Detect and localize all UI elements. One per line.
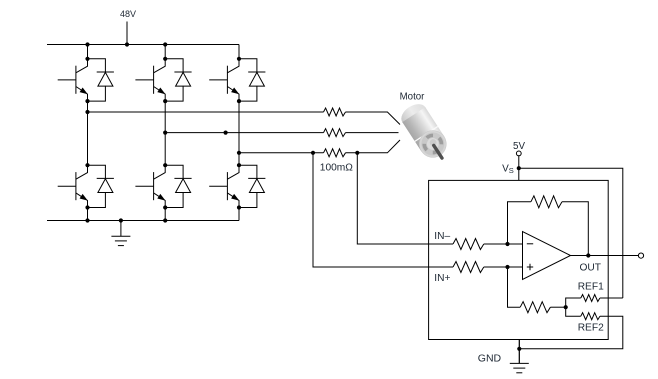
wire IN- to opamp <box>484 243 523 245</box>
resistor phase B <box>324 129 346 137</box>
wire leg3 mid <box>238 101 240 165</box>
wire 48V bus (top rail) <box>47 44 239 46</box>
node Q4 collector <box>85 163 89 167</box>
resistor R-REF1 <box>581 295 600 302</box>
junction feedback-output <box>586 253 590 257</box>
junction IN+ gain <box>505 265 509 269</box>
node shunt right tap <box>355 151 359 155</box>
wire shunt right tap to IN- <box>357 153 453 244</box>
wire feedback right-down <box>562 202 588 256</box>
diode D6 <box>239 165 265 207</box>
node Q1 collector <box>85 57 89 61</box>
wire gain resistor path <box>508 267 521 307</box>
resistor phase A <box>324 108 346 116</box>
wire IN+ to opamp <box>484 266 523 268</box>
resistor R-REF2 <box>581 313 600 320</box>
svg-text:VS: VS <box>502 164 514 176</box>
op-amp minus sign <box>527 243 533 245</box>
wire shunt left tap to IN+ <box>313 153 453 267</box>
wire phase A to resistor <box>88 111 324 113</box>
node Vs <box>517 166 521 170</box>
wire output <box>571 255 639 257</box>
wire phase B to resistor <box>165 132 323 134</box>
svg-text:48V: 48V <box>120 9 136 19</box>
node Q1 emitter <box>85 99 89 103</box>
wire leg1 top <box>87 45 89 59</box>
resistor R-shunt 100mohm <box>324 149 346 157</box>
svg-text:100mΩ: 100mΩ <box>320 163 353 174</box>
node phase B tap <box>163 131 167 135</box>
wire leg2 top <box>164 45 166 59</box>
junction top rail leg1 <box>85 42 89 46</box>
amplifier U1 boundary box <box>429 180 609 339</box>
svg-text:OUT: OUT <box>580 262 602 273</box>
resistor R-feedback <box>531 196 562 208</box>
node Q6 collector <box>237 163 241 167</box>
ground (inverter) <box>111 221 130 246</box>
node Q2 collector <box>163 57 167 61</box>
svg-text:IN+: IN+ <box>434 273 450 284</box>
node phase C tap <box>237 151 241 155</box>
node Q6 emitter <box>237 205 241 209</box>
svg-text:REF1: REF1 <box>578 282 604 293</box>
transistor Q5 <box>135 165 165 207</box>
junction ref node <box>564 305 568 309</box>
svg-text:REF2: REF2 <box>578 323 604 334</box>
wire 5V to Vs pin <box>518 156 520 181</box>
transistor Q2 <box>135 59 165 101</box>
junction bottom rail leg2 <box>163 218 167 222</box>
junction bottom rail leg1 <box>85 218 89 222</box>
junction top rail leg2 <box>163 42 167 46</box>
junction bottom rail gnd <box>119 218 123 222</box>
diode D2 <box>165 59 191 101</box>
diode D1 <box>88 59 114 101</box>
diode D5 <box>165 165 191 207</box>
transistor Q6 <box>209 165 239 207</box>
ground (amplifier) <box>510 340 529 373</box>
node Q2 emitter <box>163 99 167 103</box>
terminal 5V <box>516 151 521 156</box>
wire phase B to motor <box>346 132 399 134</box>
resistor R-IN+ <box>453 262 484 273</box>
svg-text:Motor: Motor <box>400 91 426 102</box>
wire REF2 to gnd return <box>519 316 623 349</box>
transistor Q4 <box>58 165 88 207</box>
wire leg1 bottom <box>87 208 89 221</box>
op-amp plus sign <box>527 264 533 270</box>
junction gnd return <box>517 347 521 351</box>
wire leg3 top <box>238 45 240 59</box>
resistor R-IN- <box>453 239 484 250</box>
resistor R-gain <box>520 302 550 313</box>
svg-text:IN–: IN– <box>434 231 450 242</box>
node Q3 collector <box>237 57 241 61</box>
transistor Q1 <box>58 59 88 101</box>
diode D3 <box>239 59 265 101</box>
wire phase C to motor <box>346 140 401 153</box>
node shunt left tap <box>311 151 315 155</box>
diode D4 <box>88 165 114 207</box>
wire REF1 to pullup <box>600 297 623 299</box>
wire GND pin <box>518 340 520 364</box>
wire phase C to resistor <box>239 152 324 154</box>
wire leg1 mid <box>87 101 89 165</box>
wire leg2 mid <box>164 101 166 165</box>
node Q5 emitter <box>163 205 167 209</box>
svg-text:5V: 5V <box>513 141 525 152</box>
wire Vs to REF1 pullup <box>519 168 623 298</box>
wire leg2 bottom <box>164 208 166 221</box>
junction phase B <box>224 131 228 135</box>
op-amp U1 <box>523 232 571 280</box>
wire feedback up-left <box>508 202 531 244</box>
wire ref branch REF1 <box>566 298 581 307</box>
svg-text:GND: GND <box>478 352 502 364</box>
wire leg3 bottom <box>238 208 240 221</box>
wire ref branch REF2 <box>566 307 581 316</box>
wire gain to ref node <box>550 306 565 308</box>
wire 48V stub <box>126 22 128 45</box>
junction IN- feedback <box>505 242 509 246</box>
node Q4 emitter <box>85 205 89 209</box>
node Q3 emitter <box>237 99 241 103</box>
junction top rail 48V <box>125 42 129 46</box>
node phase A tap <box>85 110 89 114</box>
terminal OUT <box>638 253 643 258</box>
motor (3D cylinder) <box>397 100 454 167</box>
wire ground bus (bottom rail) <box>47 220 239 222</box>
wire phase A to motor <box>346 112 401 125</box>
transistor Q3 <box>209 59 239 101</box>
node Q5 collector <box>163 163 167 167</box>
